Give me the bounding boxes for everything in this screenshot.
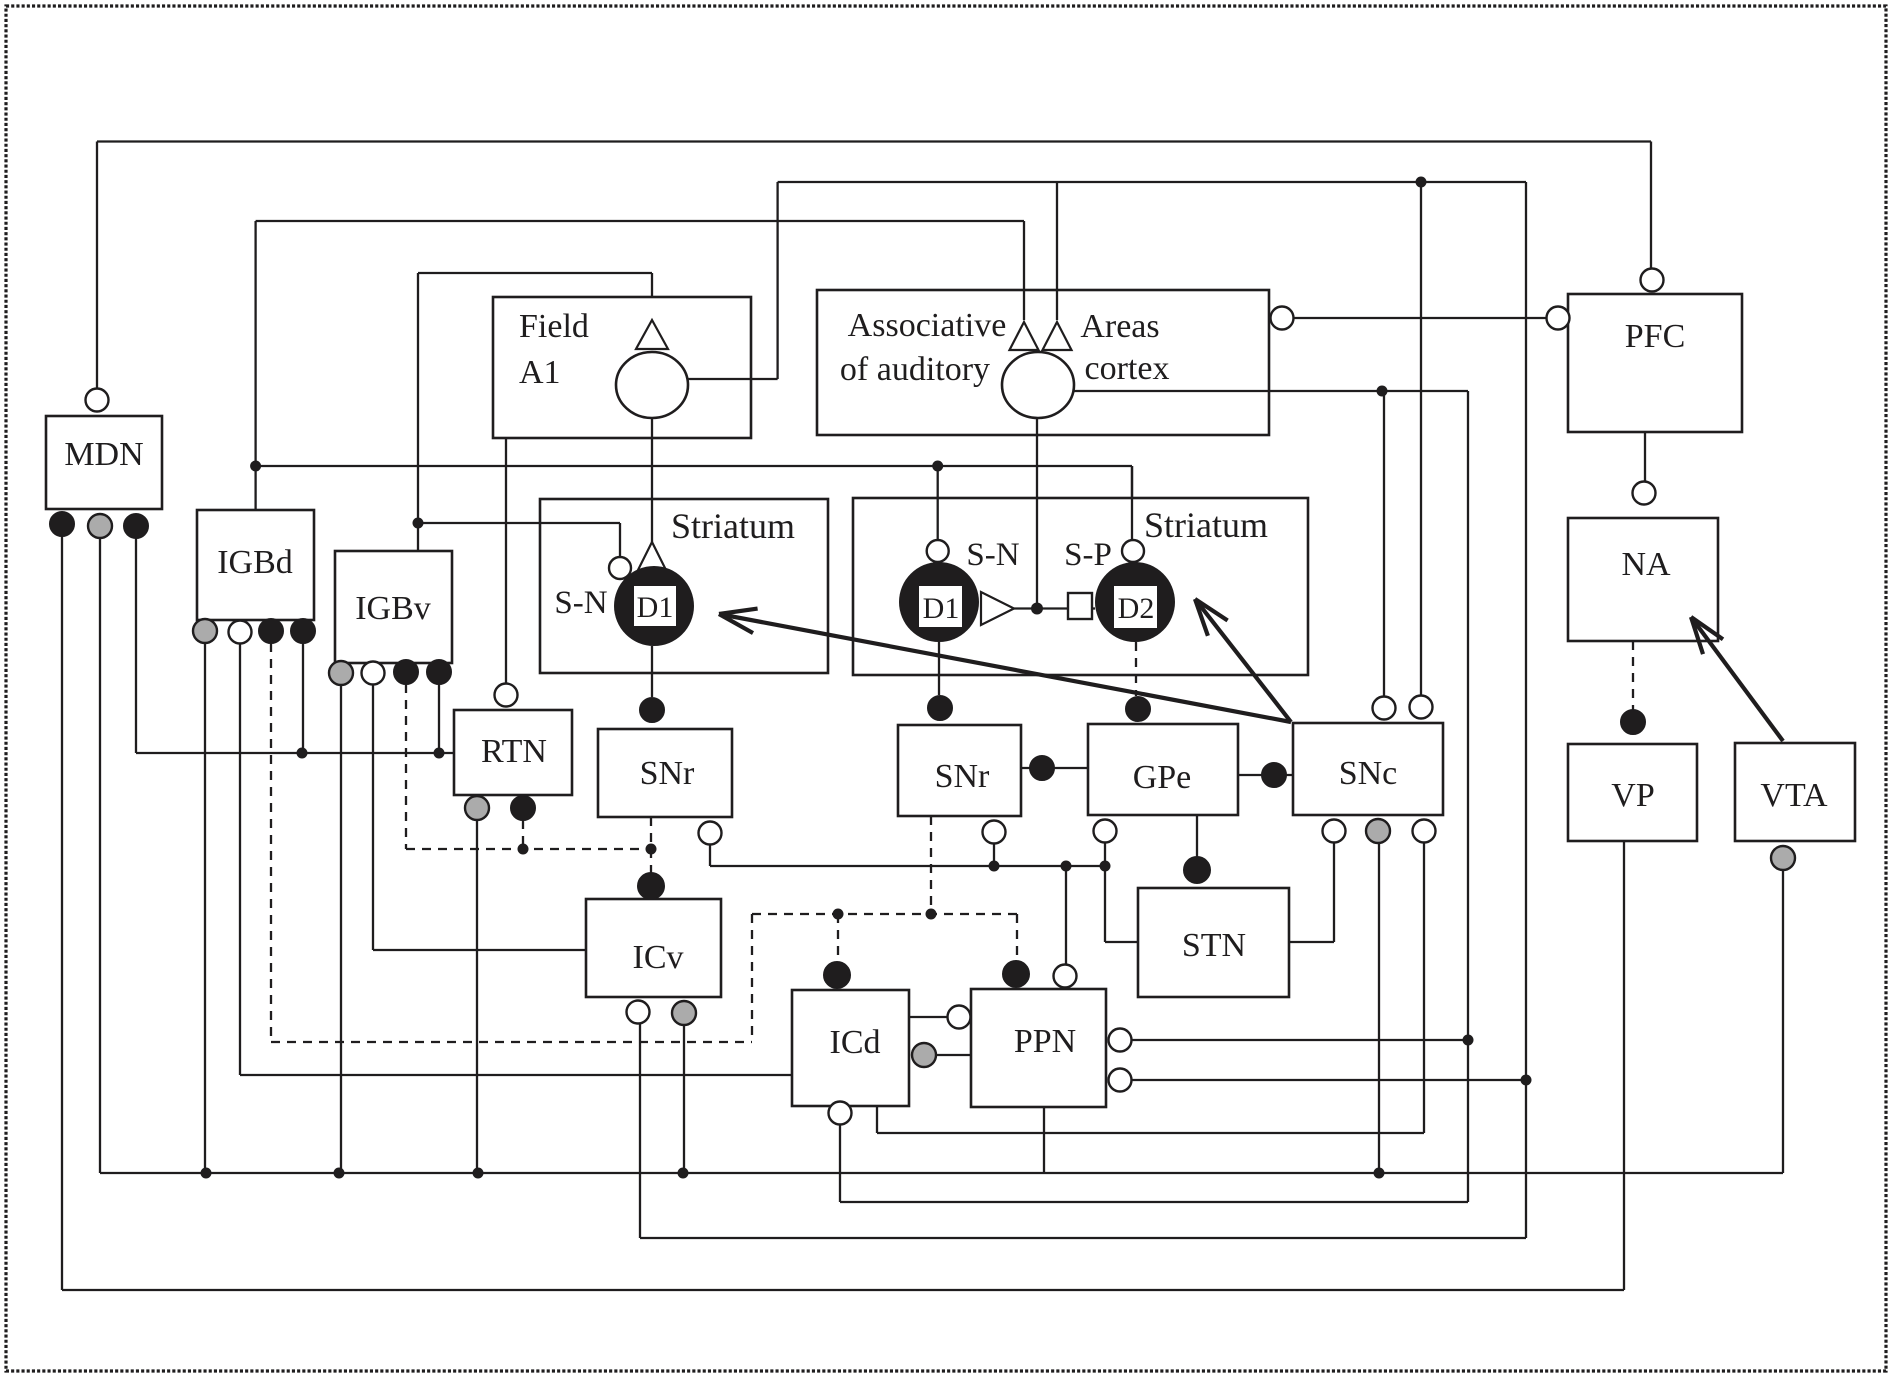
svg-text:PPN: PPN [1014, 1023, 1076, 1060]
svg-text:VTA: VTA [1760, 777, 1828, 814]
svg-text:S-N: S-N [966, 537, 1019, 573]
svg-text:SNc: SNc [1339, 755, 1398, 792]
svg-text:Associative: Associative [848, 307, 1007, 344]
svg-text:Striatum: Striatum [671, 506, 795, 546]
svg-text:ICv: ICv [633, 939, 684, 976]
svg-text:SNr: SNr [640, 755, 695, 792]
svg-text:STN: STN [1182, 927, 1246, 964]
svg-text:SNr: SNr [935, 758, 990, 795]
svg-text:VP: VP [1611, 777, 1654, 814]
svg-text:IGBv: IGBv [355, 590, 431, 627]
svg-text:NA: NA [1621, 546, 1671, 583]
svg-text:Field: Field [519, 308, 589, 345]
svg-text:cortex: cortex [1085, 350, 1170, 387]
svg-text:D2: D2 [1118, 592, 1155, 625]
svg-text:ICd: ICd [830, 1024, 881, 1061]
svg-text:D1: D1 [637, 591, 674, 624]
svg-text:D1: D1 [923, 592, 960, 625]
svg-text:Areas: Areas [1080, 308, 1159, 345]
svg-text:MDN: MDN [64, 436, 143, 473]
svg-text:S-N: S-N [554, 585, 607, 621]
svg-text:of auditory: of auditory [840, 351, 990, 388]
svg-text:Striatum: Striatum [1144, 505, 1268, 545]
svg-text:IGBd: IGBd [217, 544, 293, 581]
svg-text:S-P: S-P [1064, 537, 1112, 573]
svg-text:A1: A1 [519, 354, 561, 391]
svg-text:RTN: RTN [481, 733, 547, 770]
svg-text:GPe: GPe [1133, 759, 1192, 796]
svg-text:PFC: PFC [1625, 318, 1686, 355]
